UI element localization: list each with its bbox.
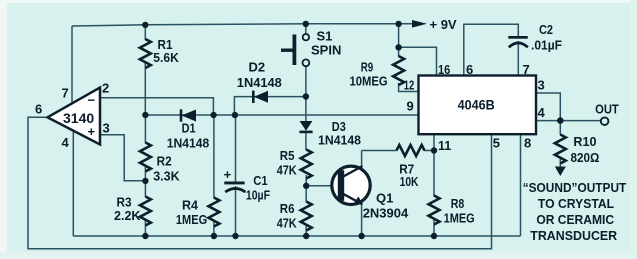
pushbutton switch S1 (303, 34, 309, 40)
svg-text:7: 7 (523, 62, 530, 77)
wire R2 to node A (144, 165, 146, 182)
wire S1 to node B (305, 66, 307, 96)
svg-text:R9: R9 (361, 60, 374, 75)
svg-text:R6: R6 (280, 201, 295, 216)
resistor R4 (208, 198, 219, 227)
wire R10 to output arrow (559, 159, 561, 169)
svg-text:1MEG: 1MEG (444, 211, 475, 226)
svg-text:1N4148: 1N4148 (237, 75, 282, 90)
resistor R10 (555, 135, 566, 164)
+9V supply arrow (412, 20, 427, 28)
svg-text:R8: R8 (451, 196, 465, 211)
svg-text:OUT: OUT (595, 102, 619, 117)
wire top rail to R1 (144, 25, 146, 40)
wire chip pin 6 loop to C2 (464, 24, 519, 75)
svg-text:12: 12 (404, 78, 415, 93)
svg-text:SPIN: SPIN (311, 43, 341, 58)
resistor R3 (140, 197, 151, 226)
svg-text:10K: 10K (400, 174, 419, 189)
OUT terminal (601, 117, 609, 125)
diode D1 (182, 110, 197, 122)
svg-text:TO CRYSTAL: TO CRYSTAL (538, 196, 614, 211)
svg-text:47K: 47K (277, 163, 298, 178)
svg-text:11: 11 (438, 138, 451, 153)
wire node line (D1/R4/C1/pin 9) (145, 114, 419, 116)
wire +9V top rail (72, 24, 425, 26)
svg-text:C1: C1 (253, 173, 268, 188)
svg-text:TRANSDUCER: TRANSDUCER (530, 228, 617, 243)
junction node line / pin 2 / R4 (210, 112, 216, 118)
svg-text:47K: 47K (277, 216, 298, 231)
diode D2 (254, 91, 268, 103)
junction top rail / R9 (395, 21, 401, 27)
svg-text:3.3K: 3.3K (153, 169, 180, 184)
junction top rail / R1 (142, 22, 148, 28)
resistor R2 (140, 143, 151, 172)
svg-text:OR CERAMIC: OR CERAMIC (536, 212, 614, 227)
wire C1 to ground rail (235, 186, 237, 236)
svg-text:+: + (224, 167, 232, 182)
wire C2 to chip pin 7 (517, 41, 519, 76)
junction ground rail / Q1 emitter (358, 233, 364, 239)
svg-text:1MEG: 1MEG (176, 212, 207, 227)
svg-text:4: 4 (62, 135, 70, 150)
wire R7 to pin 11 node (424, 150, 434, 152)
wire R4 to ground rail (213, 221, 215, 236)
wire op-amp pin 3 to node A (100, 135, 145, 181)
svg-text:4046B: 4046B (458, 97, 495, 113)
wire node A to R3 (144, 181, 146, 197)
wire node line to R2 (144, 115, 146, 143)
svg-text:R5: R5 (280, 148, 295, 163)
svg-text:1N4148: 1N4148 (318, 133, 361, 148)
junction ground rail / C1 (232, 233, 238, 239)
svg-text:C2: C2 (539, 22, 553, 37)
svg-text:S1: S1 (317, 29, 333, 44)
resistor R5 (301, 150, 312, 179)
svg-text:2.2K: 2.2K (114, 208, 141, 223)
svg-text:D1: D1 (182, 120, 196, 135)
wire chip pin 3 jog to output node (536, 93, 560, 121)
svg-text:+: + (88, 124, 96, 139)
junction R9 / pin 16 branch (395, 44, 401, 50)
junction node line / D2 / C1 (232, 112, 238, 118)
resistor R7 (397, 145, 425, 156)
junction ground rail / R4 (211, 233, 217, 239)
svg-text:6: 6 (35, 102, 42, 117)
svg-text:10µF: 10µF (246, 188, 270, 203)
svg-text:8: 8 (524, 136, 531, 151)
resistor R6 (301, 202, 312, 231)
op-amp U1 3140 (48, 88, 101, 145)
wire op-amp pin 2 to node line (100, 98, 213, 115)
wire pin 11 node to R8 (433, 151, 435, 197)
capacitor C2 (508, 36, 528, 39)
wire op-amp pin 4 to ground rail (72, 131, 74, 236)
output arrow to transducer note (555, 167, 566, 177)
wire +9V branch to chip pin 16 (399, 47, 437, 75)
junction pin 11 / R7 / R8 (431, 147, 437, 153)
junction node B: S1 / D2 / D3 (303, 93, 309, 99)
wire chip pin 11 (433, 134, 435, 151)
wire V+ rail drop to op-amp pin 7 (71, 26, 73, 104)
junction ground rail / R8 (431, 233, 437, 239)
svg-text:4: 4 (538, 105, 546, 120)
svg-text:−: − (88, 93, 96, 108)
capacitor C1 (224, 182, 244, 185)
svg-text:“SOUND”OUTPUT: “SOUND”OUTPUT (523, 180, 627, 195)
wire R6 to ground rail (305, 226, 307, 237)
resistor R9 (393, 56, 404, 85)
junction node A: R2 / R3 / pin 3 (142, 178, 148, 184)
svg-text:Q1: Q1 (376, 191, 393, 206)
wire chip pin 8 drop to ground rail (520, 134, 522, 236)
junction top rail / S1 (303, 21, 309, 27)
wire node line to R4 (213, 115, 215, 198)
transistor Q1 (332, 166, 370, 204)
wire R1 to node line (144, 63, 146, 116)
wire Q1 emitter to ground rail (361, 204, 363, 237)
wire R8 to ground rail (433, 220, 435, 237)
svg-text:3: 3 (538, 78, 545, 93)
wire top rail to S1 (305, 24, 307, 34)
svg-text:2N3904: 2N3904 (363, 206, 409, 221)
svg-text:R10: R10 (573, 134, 596, 149)
svg-text:5: 5 (493, 136, 500, 151)
resistor R8 (429, 196, 440, 225)
svg-text:R4: R4 (182, 198, 199, 213)
svg-text:.01µF: .01µF (531, 38, 562, 53)
IC U2 4046B (419, 76, 537, 135)
wire R9 to chip pin 12 (399, 83, 419, 92)
svg-text:16: 16 (438, 62, 450, 77)
resistor R1 (140, 39, 151, 68)
svg-text:820Ω: 820Ω (571, 150, 600, 165)
svg-text:10MEG: 10MEG (350, 74, 388, 89)
svg-text:2: 2 (102, 81, 109, 96)
wire ground rail (73, 235, 520, 237)
wire chip pin 4 to OUT terminal (536, 120, 601, 122)
wire node C to Q1 base (306, 185, 338, 187)
wire node B to D3 (305, 97, 307, 123)
junction ground rail / R3 (142, 233, 148, 239)
wire node line to C1 (235, 115, 237, 182)
svg-text:1N4148: 1N4148 (167, 136, 210, 151)
junction node line / R1 R2 (142, 112, 148, 118)
junction ground rail / R6 (303, 233, 309, 239)
junction node C: R5 / R6 / Q1 base (303, 183, 309, 189)
diode D3 (300, 121, 313, 131)
wire top rail to R9 (398, 24, 400, 57)
wire Q1 collector riser (361, 151, 363, 168)
svg-text:D2: D2 (249, 60, 266, 75)
svg-text:7: 7 (62, 86, 69, 101)
junction output node: pin 3 / pin 4 / R10 (557, 117, 564, 124)
wire output node to R10 (559, 121, 561, 135)
svg-text:3: 3 (103, 121, 110, 136)
svg-text:6: 6 (466, 62, 473, 77)
svg-text:+ 9V: + 9V (430, 17, 457, 32)
svg-text:R2: R2 (157, 154, 172, 169)
wire R5 to node C (305, 175, 307, 186)
wire op-amp pin 6 loop to chip pin 5 (28, 117, 492, 249)
wire node B to D2 and down to node line (234, 97, 306, 115)
svg-text:9: 9 (407, 99, 414, 114)
wire collector to R7 (362, 150, 397, 152)
wire R3 to ground rail (144, 221, 146, 237)
wire node C to R6 (305, 186, 307, 202)
svg-text:5.6K: 5.6K (153, 50, 179, 65)
wire D3 to R5 (305, 133, 307, 151)
